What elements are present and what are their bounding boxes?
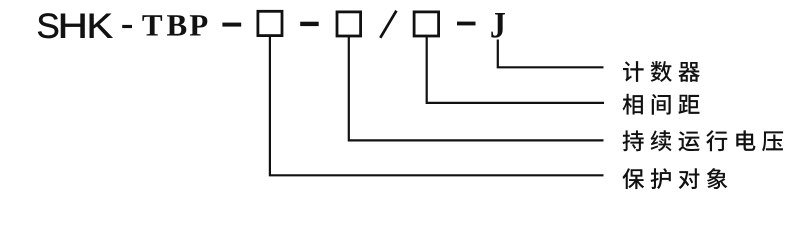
label char 护: [651, 168, 671, 189]
letter B: [167, 15, 186, 35]
slash separator: [380, 11, 396, 38]
label char 行: [706, 130, 727, 151]
label char 保: [622, 168, 644, 189]
model prefix text SHK-TBP: [38, 13, 505, 38]
wire from box 1 to protected-object label: [270, 37, 604, 175]
label char 对: [679, 168, 700, 189]
bold dash between box 1 and box 2: [300, 22, 319, 26]
label char 距: [678, 95, 699, 114]
wire from box 3 to phase-spacing label: [427, 36, 604, 103]
bold dash between box 3 and J: [457, 22, 476, 26]
field box 1 (protected object): [258, 11, 282, 35]
counter label 计数器: [623, 61, 700, 82]
label char 器: [678, 62, 699, 82]
label char 计: [623, 61, 644, 82]
operating-voltage label 持续运行电压: [623, 130, 784, 151]
label char 象: [707, 168, 728, 189]
label char 持: [623, 130, 644, 151]
letter S: [38, 13, 58, 38]
label char 运: [679, 131, 700, 151]
wire from box 2 to operating-voltage label: [349, 36, 604, 140]
field box 3 (phase spacing): [414, 12, 439, 36]
letter K: [90, 14, 113, 38]
letter H: [61, 14, 84, 38]
label char 续: [651, 130, 672, 151]
wire from J to counter label: [498, 40, 604, 68]
suffix letter J (counter): [491, 13, 505, 38]
label char 相: [623, 94, 643, 115]
letter P: [190, 15, 208, 35]
label char 间: [652, 94, 671, 115]
hyphen between SHK and TBP: [122, 25, 132, 28]
label char 数: [651, 61, 672, 82]
phase-spacing label 相间距: [623, 94, 700, 115]
label char 压: [762, 131, 783, 151]
protected-object label 保护对象: [622, 168, 727, 189]
letter T: [142, 15, 162, 35]
label char 电: [736, 130, 755, 150]
bold dash after TBP: [222, 23, 241, 27]
field box 2 (continuous operating voltage): [337, 12, 361, 36]
